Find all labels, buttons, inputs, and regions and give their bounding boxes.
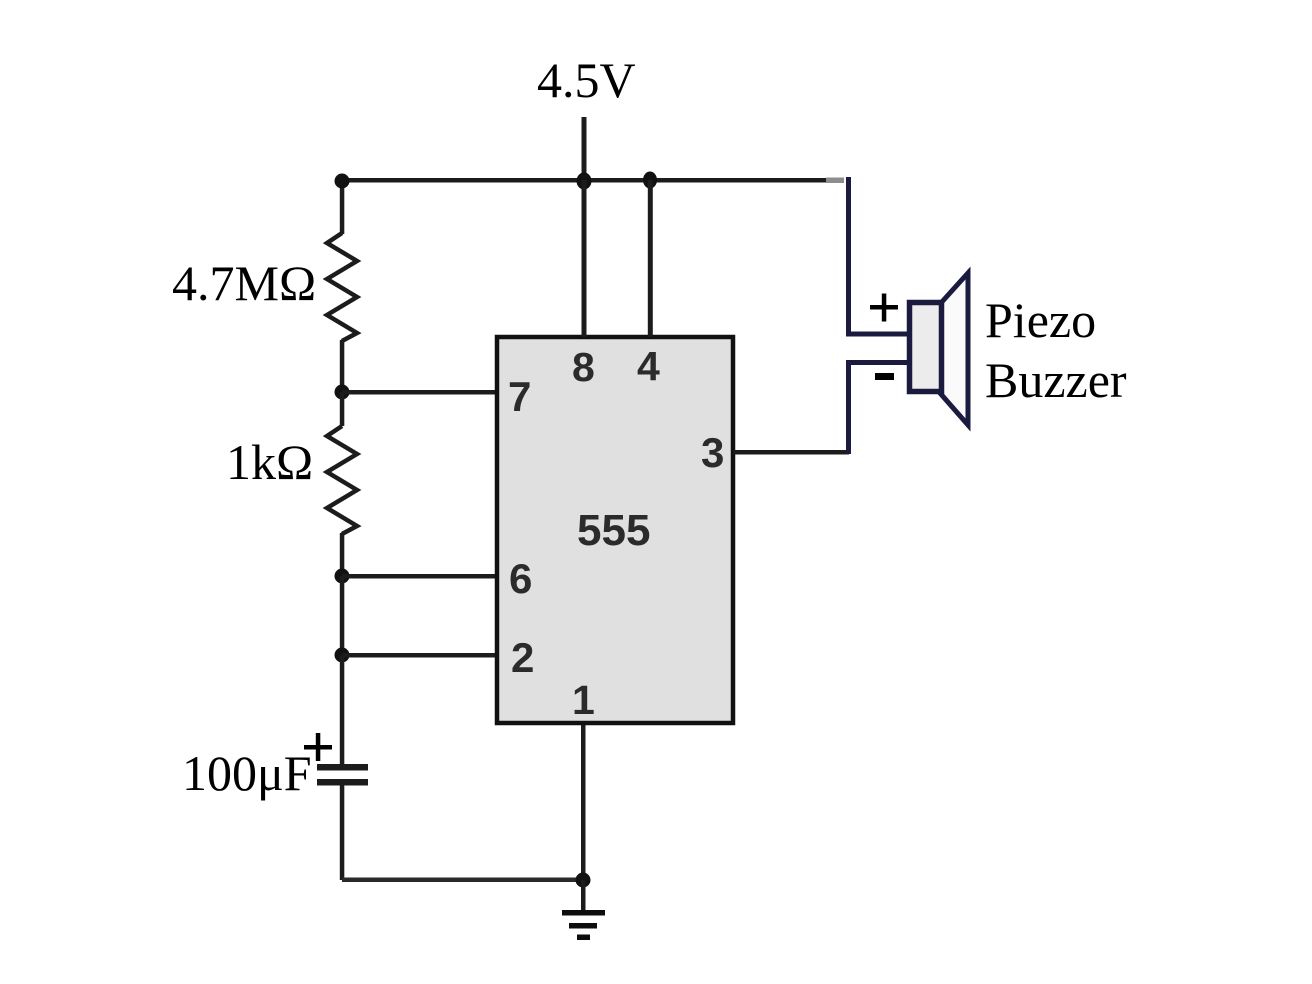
- node junction dot ground: [576, 873, 591, 888]
- wire left branch vertical (rail to R1): [340, 180, 345, 234]
- wire capacitor to bottom rail: [340, 785, 345, 880]
- wire top rail grey end cap: [826, 178, 844, 184]
- node junction dot supply rail: [577, 173, 592, 190]
- svg-text:4.5V: 4.5V: [537, 52, 636, 108]
- node junction dot left rail: [335, 174, 350, 189]
- node junction dot pin7: [335, 385, 350, 400]
- label minus terminal: [875, 373, 894, 380]
- node junction dot pin6: [335, 569, 350, 584]
- svg-text:6: 6: [509, 555, 532, 602]
- svg-text:4: 4: [637, 343, 660, 389]
- capacitor C1 top plate: [317, 764, 368, 771]
- piezo buzzer speaker cone: [940, 273, 968, 425]
- wire 4.5V stub: [582, 117, 587, 180]
- wire node7 to pin 7: [342, 390, 498, 395]
- svg-text:4.7MΩ: 4.7MΩ: [172, 255, 316, 311]
- wire node6 to node2: [340, 576, 345, 655]
- resistor R2 1k zigzag: [327, 426, 357, 534]
- node junction dot pin4 rail: [643, 172, 657, 189]
- wire pin1 vertical: [581, 724, 586, 880]
- wire node2 to capacitor: [340, 655, 345, 765]
- svg-text:Buzzer: Buzzer: [985, 352, 1127, 408]
- wire node7 to R2: [340, 392, 345, 426]
- svg-text:1: 1: [572, 677, 595, 723]
- ground symbol: [562, 910, 605, 940]
- svg-text:3: 3: [701, 429, 724, 476]
- wire buzzer minus vertical (down to pin3 wire): [846, 360, 851, 454]
- wire ground stub: [581, 880, 586, 911]
- wire bottom rail: [342, 878, 584, 883]
- wire buzzer minus horizontal: [846, 360, 908, 365]
- op-amp U1 555 IC body: [497, 337, 733, 723]
- svg-text:8: 8: [572, 344, 595, 390]
- wire pin 3 to buzzer branch: [733, 450, 849, 455]
- svg-text:1kΩ: 1kΩ: [226, 434, 313, 490]
- svg-text:Piezo: Piezo: [985, 292, 1096, 348]
- wire pin 8 stub: [582, 180, 587, 337]
- wire node2 to pin 2: [342, 653, 498, 658]
- wire pin 4 stub: [648, 180, 653, 337]
- label plus terminal: [870, 294, 898, 322]
- svg-text:2: 2: [511, 634, 534, 681]
- wire buzzer plus vertical (rail down): [846, 177, 851, 336]
- wire top rail: [340, 178, 828, 183]
- label capacitor plus sign: [304, 733, 332, 761]
- node junction dot pin2: [335, 648, 350, 663]
- svg-text:7: 7: [508, 373, 531, 420]
- resistor R1 4.7M zigzag: [327, 233, 357, 341]
- wire buzzer plus horizontal: [846, 332, 908, 337]
- wire R2 to node6: [340, 533, 345, 576]
- svg-text:100μF: 100μF: [182, 745, 312, 801]
- capacitor C1 bottom plate: [317, 779, 368, 786]
- piezo buzzer body: [910, 303, 942, 392]
- wire R1 to node7: [340, 340, 345, 393]
- wire node6 to pin 6: [342, 574, 498, 579]
- svg-text:555: 555: [577, 506, 650, 555]
